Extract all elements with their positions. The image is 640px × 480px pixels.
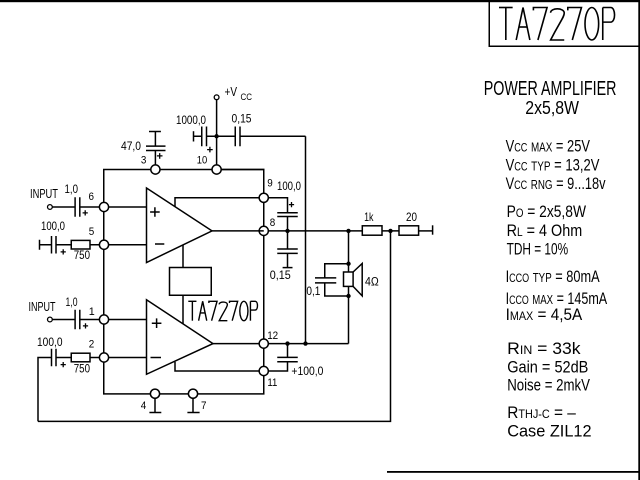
wire feedback bottom rail [38, 231, 391, 422]
svg-text:Case ZIL12: Case ZIL12 [507, 421, 591, 440]
input INPUT-2 terminal [48, 317, 53, 322]
svg-text:750: 750 [74, 362, 91, 376]
svg-text:11: 11 [267, 377, 277, 389]
svg-text:0,1: 0,1 [306, 284, 320, 298]
svg-text:750: 750 [74, 248, 91, 262]
wire main loop rectangle (pins 6,5,1,2 left rail / 9,8,12,11 right rail / ground rail) [104, 170, 264, 394]
wire right rail x=305.5 [305, 136, 307, 343]
node pin 7 ground [188, 389, 197, 398]
wire box bottom stem [182, 295, 184, 324]
svg-text:7: 7 [201, 400, 207, 412]
node pin 3 [151, 165, 160, 174]
node pin 9 [259, 193, 268, 202]
svg-text:INPUT: INPUT [29, 300, 56, 314]
speaker LS1 [344, 272, 354, 286]
border right edge [638, 0, 640, 480]
svg-text:Gain = 52dB: Gain = 52dB [507, 358, 588, 377]
capacitor C4 1,0 (input ch1) [53, 206, 76, 208]
svg-text:0,15: 0,15 [232, 112, 252, 126]
wire top rail to pin 9 [221, 170, 264, 194]
svg-text:CC: CC [241, 92, 253, 103]
input INPUT-1 terminal [48, 205, 53, 210]
node pin 11 [259, 366, 268, 375]
capacitor C11 100,0 (feedback ch2) [38, 358, 52, 422]
svg-text:1k: 1k [364, 210, 374, 224]
svg-text:RTHJ-C = –: RTHJ-C = – [507, 403, 576, 422]
junction C9 on output 2 [285, 341, 289, 345]
title text TA7270P [505, 8, 507, 41]
svg-text:4Ω: 4Ω [365, 274, 379, 288]
svg-text:4: 4 [141, 400, 147, 412]
svg-text:100,0: 100,0 [41, 219, 65, 233]
wire R3 to end terminal [419, 230, 433, 232]
wire speaker branch down [348, 231, 350, 272]
resistor R4 750 [71, 353, 90, 362]
svg-text:TDH = 10%: TDH = 10% [507, 240, 568, 259]
junction supply node [214, 134, 218, 138]
node pin 12 [259, 339, 268, 348]
svg-text:6: 6 [89, 191, 95, 203]
svg-text:VCC MAX = 25V: VCC MAX = 25V [506, 137, 591, 156]
node pin 1 [99, 315, 108, 324]
capacitor C3 47,0 (ripple filter on pin 3) [149, 131, 161, 133]
svg-text:+100,0: +100,0 [291, 364, 323, 378]
svg-text:PO = 2x5,8W: PO = 2x5,8W [507, 202, 586, 221]
svg-text:RIN = 33k: RIN = 33k [507, 339, 581, 358]
svg-text:12: 12 [267, 330, 278, 342]
svg-text:8: 8 [270, 217, 276, 229]
svg-text:3: 3 [141, 154, 147, 166]
svg-text:20: 20 [406, 210, 417, 224]
svg-text:ICCO TYP = 80mA: ICCO TYP = 80mA [506, 267, 600, 286]
wire U1b output rail (pin 12) [212, 343, 259, 345]
plus mark C5 [61, 249, 66, 254]
ground symbol pin 7 [192, 398, 194, 412]
resistor R3 20 [399, 226, 419, 235]
capacitor C5 100,0 (feedback ch1) [39, 240, 41, 250]
svg-text:POWER AMPLIFIER: POWER AMPLIFIER [484, 78, 617, 100]
junction speaker top [346, 262, 350, 266]
wire +Vcc down to node 10 [216, 100, 218, 170]
border bottom-right bar [387, 471, 640, 473]
junction right rail end [303, 341, 307, 345]
capacitor C10 1,0 (input ch2) [53, 319, 76, 321]
wire pin1 to op-amp [109, 319, 147, 321]
plus mark C4 [83, 210, 88, 215]
plus mark C1 [207, 147, 213, 153]
wire U1b output tap to pin 11 [175, 362, 259, 371]
capacitor C8 0,1 (across speaker) [325, 264, 349, 278]
label TA7270P (IC name) [191, 301, 193, 320]
capacitor C2 0,15 (supply ceramic) [217, 135, 236, 137]
svg-text:1,0: 1,0 [66, 297, 78, 309]
svg-text:1: 1 [89, 306, 95, 318]
svg-text:+V: +V [225, 85, 238, 99]
plus mark C6 [289, 202, 294, 207]
svg-text:RL = 4 Ohm: RL = 4 Ohm [507, 221, 583, 240]
plus input mark U1b [152, 318, 162, 328]
wire U1a output to pin 8 and out [212, 230, 264, 232]
wire pin2 to op-amp [109, 357, 147, 359]
svg-text:9: 9 [267, 178, 273, 190]
resistor R2 1k [362, 226, 382, 235]
svg-text:VCC RNG = 9...18v: VCC RNG = 9...18v [506, 174, 606, 193]
svg-text:10: 10 [197, 154, 208, 166]
junction R2/R3 [388, 229, 392, 233]
node pin 10 [212, 165, 221, 174]
op-amp U1a triangle [147, 188, 213, 263]
border top bar [0, 0, 640, 2]
resistor R1 750 [71, 240, 90, 249]
capacitor C7 0,15 (zobel ch1) [287, 231, 289, 249]
terminal +Vcc [214, 95, 219, 100]
svg-text:2x5,8W: 2x5,8W [525, 98, 579, 118]
svg-text:Noise = 2mkV: Noise = 2mkV [507, 375, 590, 394]
svg-text:1000,0: 1000,0 [176, 113, 206, 127]
minus input mark U1a [155, 243, 164, 245]
svg-text:100,0: 100,0 [277, 179, 301, 193]
node pin 6 [99, 202, 108, 211]
junction speaker bottom [346, 294, 350, 298]
svg-text:VCC TYP = 13,2V: VCC TYP = 13,2V [506, 155, 600, 174]
junction C6/C7 on output 1 [285, 229, 289, 233]
junction speaker tap [346, 229, 350, 233]
plus mark C3 [157, 153, 163, 159]
plus mark C10 [83, 323, 88, 328]
wire speaker bottom down to output 2 rail [348, 286, 350, 343]
svg-text:IMAX = 4,5A: IMAX = 4,5A [506, 305, 583, 324]
minus input mark U1b [151, 357, 162, 359]
wire U1a output tap to pin 9 [175, 198, 264, 207]
svg-text:100,0: 100,0 [37, 335, 63, 349]
wire pin5 to op-amp [109, 244, 147, 246]
node pin 4 ground [150, 389, 159, 398]
wire between R2 and R3 [382, 230, 399, 232]
svg-text:47,0: 47,0 [121, 139, 141, 153]
plus mark C11 [61, 362, 66, 367]
svg-text:2: 2 [89, 339, 95, 351]
op-amp U1b triangle [147, 300, 214, 375]
node pin 8 [259, 226, 268, 235]
capacitor C9 100,0 (bootstrap ch2) [287, 344, 289, 358]
wire pin6 to op-amp [109, 206, 147, 208]
bias box shared between op-amps [170, 268, 212, 296]
plus input mark U1a [150, 207, 160, 217]
capacitor C1 1000,0 (supply electrolytic) [193, 131, 195, 141]
title box [489, 2, 640, 46]
svg-text:0,15: 0,15 [270, 268, 291, 282]
node pin 2 [99, 353, 108, 362]
wire box top stem [182, 245, 184, 268]
ground symbol pin 4 [154, 398, 156, 412]
capacitor C6 100,0 (bootstrap ch1) [268, 198, 287, 213]
svg-text:1,0: 1,0 [65, 184, 79, 196]
svg-text:INPUT: INPUT [30, 187, 58, 201]
svg-text:5: 5 [89, 226, 95, 238]
node pin 5 [99, 240, 108, 249]
